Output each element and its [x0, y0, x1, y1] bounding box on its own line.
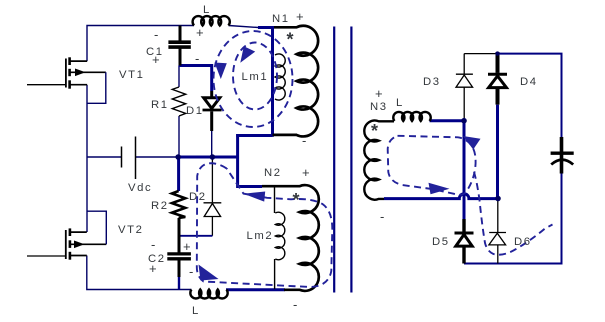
svg-text:L: L — [203, 4, 211, 16]
svg-text:*: * — [287, 30, 294, 50]
svg-text:L: L — [396, 97, 404, 109]
svg-text:N2: N2 — [264, 167, 282, 179]
svg-text:L: L — [192, 305, 200, 317]
svg-text:D3: D3 — [423, 76, 441, 88]
svg-text:VT1: VT1 — [119, 69, 145, 81]
svg-text:-: - — [302, 133, 306, 148]
svg-text:Lm2: Lm2 — [247, 230, 274, 242]
svg-text:D4: D4 — [520, 76, 538, 88]
svg-text:-: - — [293, 297, 297, 312]
svg-text:VT2: VT2 — [118, 224, 144, 236]
svg-text:+: + — [196, 25, 204, 40]
svg-text:+: + — [375, 86, 383, 101]
svg-text:D6: D6 — [514, 236, 532, 248]
svg-text:N1: N1 — [272, 13, 290, 25]
svg-text:D1: D1 — [186, 105, 204, 117]
svg-text:-: - — [189, 264, 193, 279]
svg-text:-: - — [195, 51, 199, 66]
svg-text:-: - — [154, 27, 158, 42]
svg-text:+: + — [149, 261, 157, 276]
svg-text:+: + — [152, 52, 160, 67]
svg-text:Vdc: Vdc — [128, 182, 152, 194]
svg-text:*: * — [293, 190, 300, 210]
svg-text:Lm1: Lm1 — [242, 71, 269, 83]
svg-text:D5: D5 — [432, 236, 450, 248]
svg-text:R1: R1 — [151, 99, 169, 111]
svg-text:N3: N3 — [370, 101, 388, 113]
svg-text:+: + — [296, 9, 304, 24]
svg-text:R2: R2 — [151, 200, 169, 212]
svg-text:-: - — [380, 209, 384, 224]
svg-text:+: + — [183, 239, 191, 254]
svg-text:+: + — [302, 165, 310, 180]
svg-text:-: - — [151, 237, 155, 252]
svg-text:*: * — [371, 121, 378, 141]
svg-text:D2: D2 — [189, 191, 207, 203]
